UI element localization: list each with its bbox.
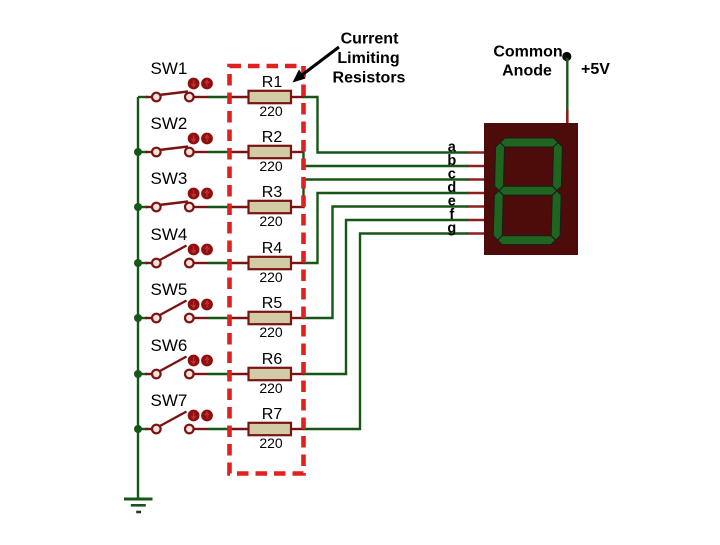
svg-text:SW3: SW3 (151, 169, 188, 188)
switch SW2 (146, 147, 208, 157)
svg-text:SW4: SW4 (151, 225, 188, 244)
wire: R4 to display segment d (303, 193, 468, 263)
svg-text:Common: Common (493, 44, 562, 61)
annotation box: current limiting resistors (dashed) (230, 66, 304, 474)
segment c (551, 191, 561, 241)
display pin d (467, 192, 484, 195)
svg-text:SW7: SW7 (151, 391, 188, 410)
segment b (552, 143, 562, 191)
display pin g (467, 232, 484, 235)
svg-text:R6: R6 (262, 351, 283, 368)
wire: +5V to display common anode (566, 58, 568, 111)
svg-text:R3: R3 (262, 184, 283, 201)
svg-text:SW6: SW6 (151, 336, 188, 355)
junction: bus / SW6 (134, 370, 142, 378)
svg-text:R7: R7 (262, 406, 283, 423)
switch SW6 (146, 357, 208, 379)
display pin: common anode (566, 110, 569, 124)
svg-text:SW1: SW1 (151, 59, 188, 78)
resistor R7 (229, 423, 304, 435)
wire: bus to SW2 (138, 151, 148, 153)
wire: R7 to display segment g (303, 234, 468, 430)
toggle actuator buttons SW2 (188, 133, 213, 145)
segment f (494, 143, 504, 191)
toggle actuator buttons SW5 (188, 299, 213, 311)
wire: bus to SW5 (138, 317, 148, 319)
wire: R6 to display segment f (303, 220, 468, 374)
wire: R3 to display segment c (303, 180, 468, 208)
svg-text:220: 220 (259, 435, 283, 451)
wire: SW2 to R2 (208, 151, 231, 153)
svg-text:Current: Current (341, 31, 399, 48)
wire: R2 to display segment b (303, 152, 468, 166)
toggle actuator buttons SW6 (188, 355, 213, 367)
resistor R1 (229, 91, 304, 103)
svg-text:220: 220 (259, 103, 283, 119)
resistor R4 (229, 257, 304, 269)
wire: ground bus vertical (137, 97, 139, 499)
annotation arrow to R1 (293, 47, 340, 83)
toggle actuator buttons SW7 (188, 410, 213, 422)
resistor R5 (229, 312, 304, 324)
svg-text:R1: R1 (262, 74, 283, 91)
wire: SW6 to R6 (208, 373, 231, 375)
segment e (493, 191, 503, 241)
wire: bus to SW4 (138, 262, 148, 264)
wire: R1 to display segment a (303, 97, 468, 153)
svg-text:Limiting: Limiting (337, 50, 399, 67)
toggle actuator buttons SW3 (188, 188, 213, 200)
switch SW1 (146, 92, 208, 102)
junction: bus / SW7 (134, 425, 142, 433)
wire: bus to SW7 (138, 428, 148, 430)
svg-text:R5: R5 (262, 295, 283, 312)
wire: SW3 to R3 (208, 206, 231, 208)
junction: bus / SW2 (134, 148, 142, 156)
display pin b (467, 165, 484, 168)
resistor R3 (229, 201, 304, 213)
svg-text:R2: R2 (262, 129, 283, 146)
annotation text: Common Anode (493, 44, 562, 80)
wire: SW7 to R7 (208, 428, 231, 430)
svg-text:SW2: SW2 (151, 114, 188, 133)
annotation text: Current Limiting Resistors (333, 31, 406, 87)
wire: bus to SW6 (138, 373, 148, 375)
switch SW7 (146, 412, 208, 434)
switch SW5 (146, 301, 208, 323)
svg-text:Anode: Anode (502, 63, 552, 80)
segment a (500, 138, 558, 147)
resistor R2 (229, 146, 304, 158)
segment d (498, 236, 556, 245)
wire: SW5 to R5 (208, 317, 231, 319)
svg-text:R4: R4 (262, 240, 283, 257)
toggle actuator buttons SW4 (188, 244, 213, 256)
svg-text:220: 220 (259, 324, 283, 340)
wire: R5 to display segment e (303, 207, 468, 319)
display pin a (467, 151, 484, 154)
wire: SW1 to R1 (208, 96, 231, 98)
svg-text:220: 220 (259, 380, 283, 396)
resistor R6 (229, 368, 304, 380)
7-segment display (common anode) (484, 123, 578, 255)
display pin f (467, 219, 484, 222)
switch SW3 (146, 202, 208, 212)
svg-text:220: 220 (259, 158, 283, 174)
svg-text:220: 220 (259, 213, 283, 229)
node: common anode junction dot (562, 52, 571, 61)
svg-text:g: g (447, 220, 456, 236)
junction: bus / SW5 (134, 314, 142, 322)
wire: bus to SW3 (138, 206, 148, 208)
toggle actuator buttons SW1 (188, 78, 213, 90)
display pin e (467, 205, 484, 208)
svg-text:SW5: SW5 (151, 280, 188, 299)
segment g (499, 186, 557, 195)
junction: bus / SW4 (134, 259, 142, 267)
svg-text:220: 220 (259, 269, 283, 285)
svg-text:Resistors: Resistors (333, 69, 406, 86)
svg-text:+5V: +5V (581, 61, 610, 78)
display pin c (467, 178, 484, 181)
wire: SW4 to R4 (208, 262, 231, 264)
junction: bus / SW3 (134, 203, 142, 211)
wire: bus to SW1 (138, 96, 148, 98)
switch SW4 (146, 246, 208, 268)
ground (124, 499, 153, 512)
